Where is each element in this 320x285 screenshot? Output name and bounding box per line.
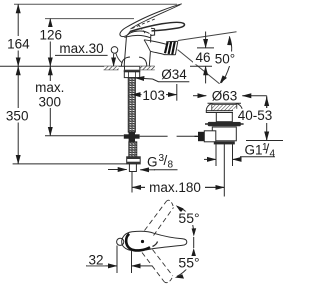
55 lower arc <box>177 250 194 277</box>
mounting hex nut <box>124 72 139 78</box>
ref line 350 bottom <box>13 163 127 165</box>
103 dimension right arrow <box>165 94 177 96</box>
103 dimension left arrow <box>132 94 142 96</box>
dimension 126 line <box>49 19 51 67</box>
svg-text:G: G <box>147 155 158 170</box>
max180 left extension line <box>131 172 133 193</box>
55 upper arc <box>178 207 194 235</box>
waste body <box>212 127 236 141</box>
pull-rod knob circle <box>111 47 118 54</box>
label 50deg <box>214 53 238 67</box>
label 46 <box>193 51 213 65</box>
50 degree arc <box>229 36 231 51</box>
waste rubber washer (dark) <box>208 122 241 126</box>
deck hatch right <box>140 66 155 69</box>
threaded stud (hatched) <box>128 78 135 133</box>
pull-rod arrow to deck <box>113 54 115 67</box>
washer under deck <box>124 70 141 72</box>
svg-text:8: 8 <box>168 160 174 171</box>
label Ø63 <box>210 90 241 103</box>
ref line top of lever (164 top reference) <box>14 3 177 5</box>
label G1 1/4 <box>244 143 278 157</box>
svg-text:350: 350 <box>6 109 29 124</box>
G1 1/4 underline <box>241 157 276 160</box>
svg-text:46: 46 <box>195 50 210 65</box>
aerator end cap <box>164 41 178 55</box>
svg-text:max.: max. <box>35 80 64 95</box>
label max.30 <box>56 42 107 55</box>
top view: 32 right extension <box>131 251 133 273</box>
G3/8 label underline <box>154 169 178 171</box>
top view handle outline <box>122 231 187 250</box>
rod clamp junction <box>129 132 135 142</box>
solid lever tip reference tick <box>193 237 195 248</box>
svg-text:50°: 50° <box>215 52 235 67</box>
shank through deck <box>124 66 126 69</box>
faucet body left edge <box>124 36 126 66</box>
label max.180 <box>145 181 205 194</box>
label 55deg upper <box>178 212 203 226</box>
label 350 <box>5 108 31 123</box>
deck line (mounting surface) <box>0 65 155 67</box>
spout top edge <box>151 41 166 44</box>
max.30 underline <box>55 54 108 56</box>
top view knob circle <box>117 238 124 245</box>
top view lever hood dark crescent <box>126 234 150 251</box>
50 arc arrowheads <box>227 37 232 46</box>
faucet lever top silhouette <box>120 4 182 37</box>
46 deck reference extension <box>190 65 212 67</box>
base escutcheon left <box>121 57 130 66</box>
dimension max.300 line <box>49 66 51 136</box>
G1 1/4 arrows <box>204 158 216 160</box>
label 32 <box>87 253 106 266</box>
spray fan line lower <box>178 50 220 84</box>
deck hatch left <box>104 66 119 69</box>
hood tick <box>153 242 158 247</box>
label 55deg lower <box>177 256 202 270</box>
max180 right extension line <box>223 172 225 197</box>
pop-up rod to waste (dashed) <box>140 135 198 137</box>
flexible hose (hatched) <box>129 142 137 157</box>
label 40-53 <box>233 109 278 122</box>
103 right extension line <box>176 84 178 101</box>
faucet lever inner edge <box>131 5 181 29</box>
svg-text:103: 103 <box>142 88 165 103</box>
Ø34 underline <box>153 79 190 82</box>
G3/8 dimension arrows <box>108 169 127 171</box>
lever rear housing <box>151 28 155 35</box>
waste side rod housing <box>204 131 216 142</box>
waste plug dome hatched <box>212 105 237 111</box>
lever dashed hinge lines <box>132 19 155 35</box>
waste bottom ring <box>214 142 234 144</box>
svg-text:55°: 55° <box>178 210 199 226</box>
pull-rod into base curve <box>116 53 123 63</box>
40-53 bottom reference line <box>246 140 283 142</box>
svg-text:Ø63: Ø63 <box>212 89 238 104</box>
32 dimension line + arrows <box>86 265 106 267</box>
Ø34 leader arrow to stud <box>135 78 152 79</box>
waste tail pipe <box>215 144 217 166</box>
top view: 32 left extension <box>116 246 118 274</box>
G3/8 nut <box>127 157 141 164</box>
waste neck <box>216 113 232 122</box>
svg-text:55°: 55° <box>178 254 199 270</box>
waste plug flange <box>206 103 242 110</box>
dimension 164 line <box>17 4 19 66</box>
G3/8 thread tip <box>129 164 136 172</box>
aerator rings <box>165 41 175 54</box>
dashed lever up position <box>142 200 174 282</box>
max180 dimension line <box>132 186 224 188</box>
waste side rod knob <box>198 132 204 141</box>
waste Ø63 dim line left <box>193 95 206 97</box>
base escutcheon right <box>139 57 147 66</box>
dimension 350 line <box>17 66 19 164</box>
svg-text:40-53: 40-53 <box>238 108 273 123</box>
spout bottom edge <box>150 51 164 54</box>
46 top reference line (aerator outlet level) <box>197 47 214 49</box>
svg-text:max.180: max.180 <box>149 180 201 195</box>
svg-text:Ø34: Ø34 <box>161 67 187 82</box>
svg-text:max.30: max.30 <box>59 41 103 56</box>
faucet lever lower lobe <box>130 22 185 31</box>
waste centerline extension <box>223 144 225 172</box>
waste flange lip <box>206 111 242 113</box>
ref line blade (126 top reference) <box>45 18 134 20</box>
40-53 dimension line <box>266 96 268 108</box>
svg-text:164: 164 <box>7 37 30 52</box>
hood dot <box>141 240 144 243</box>
cartridge cap dome <box>127 31 150 35</box>
svg-text:4: 4 <box>270 149 276 160</box>
dashed lever down position <box>142 253 164 282</box>
label G3/8 <box>145 152 178 167</box>
46 dimension lower arrow <box>205 66 207 83</box>
svg-text:32: 32 <box>88 253 103 268</box>
label 103 <box>142 88 167 102</box>
spray fan line upper <box>178 32 237 41</box>
label 164 <box>6 36 31 51</box>
label 126 <box>39 27 64 42</box>
label Ø34 <box>159 67 189 81</box>
cartridge cap base <box>125 35 151 37</box>
faucet body right edge <box>149 34 151 66</box>
ref line max300 bottom / pop-up rod line left <box>45 135 124 137</box>
46 dimension upper arrow <box>205 32 207 48</box>
spout root curve <box>144 40 151 52</box>
svg-text:G1: G1 <box>245 143 263 158</box>
svg-text:300: 300 <box>39 95 62 110</box>
waste Ø63 dim line right + top ref for 40-53 <box>242 95 266 97</box>
label max.300 <box>33 81 67 108</box>
deck underside line <box>104 69 119 71</box>
